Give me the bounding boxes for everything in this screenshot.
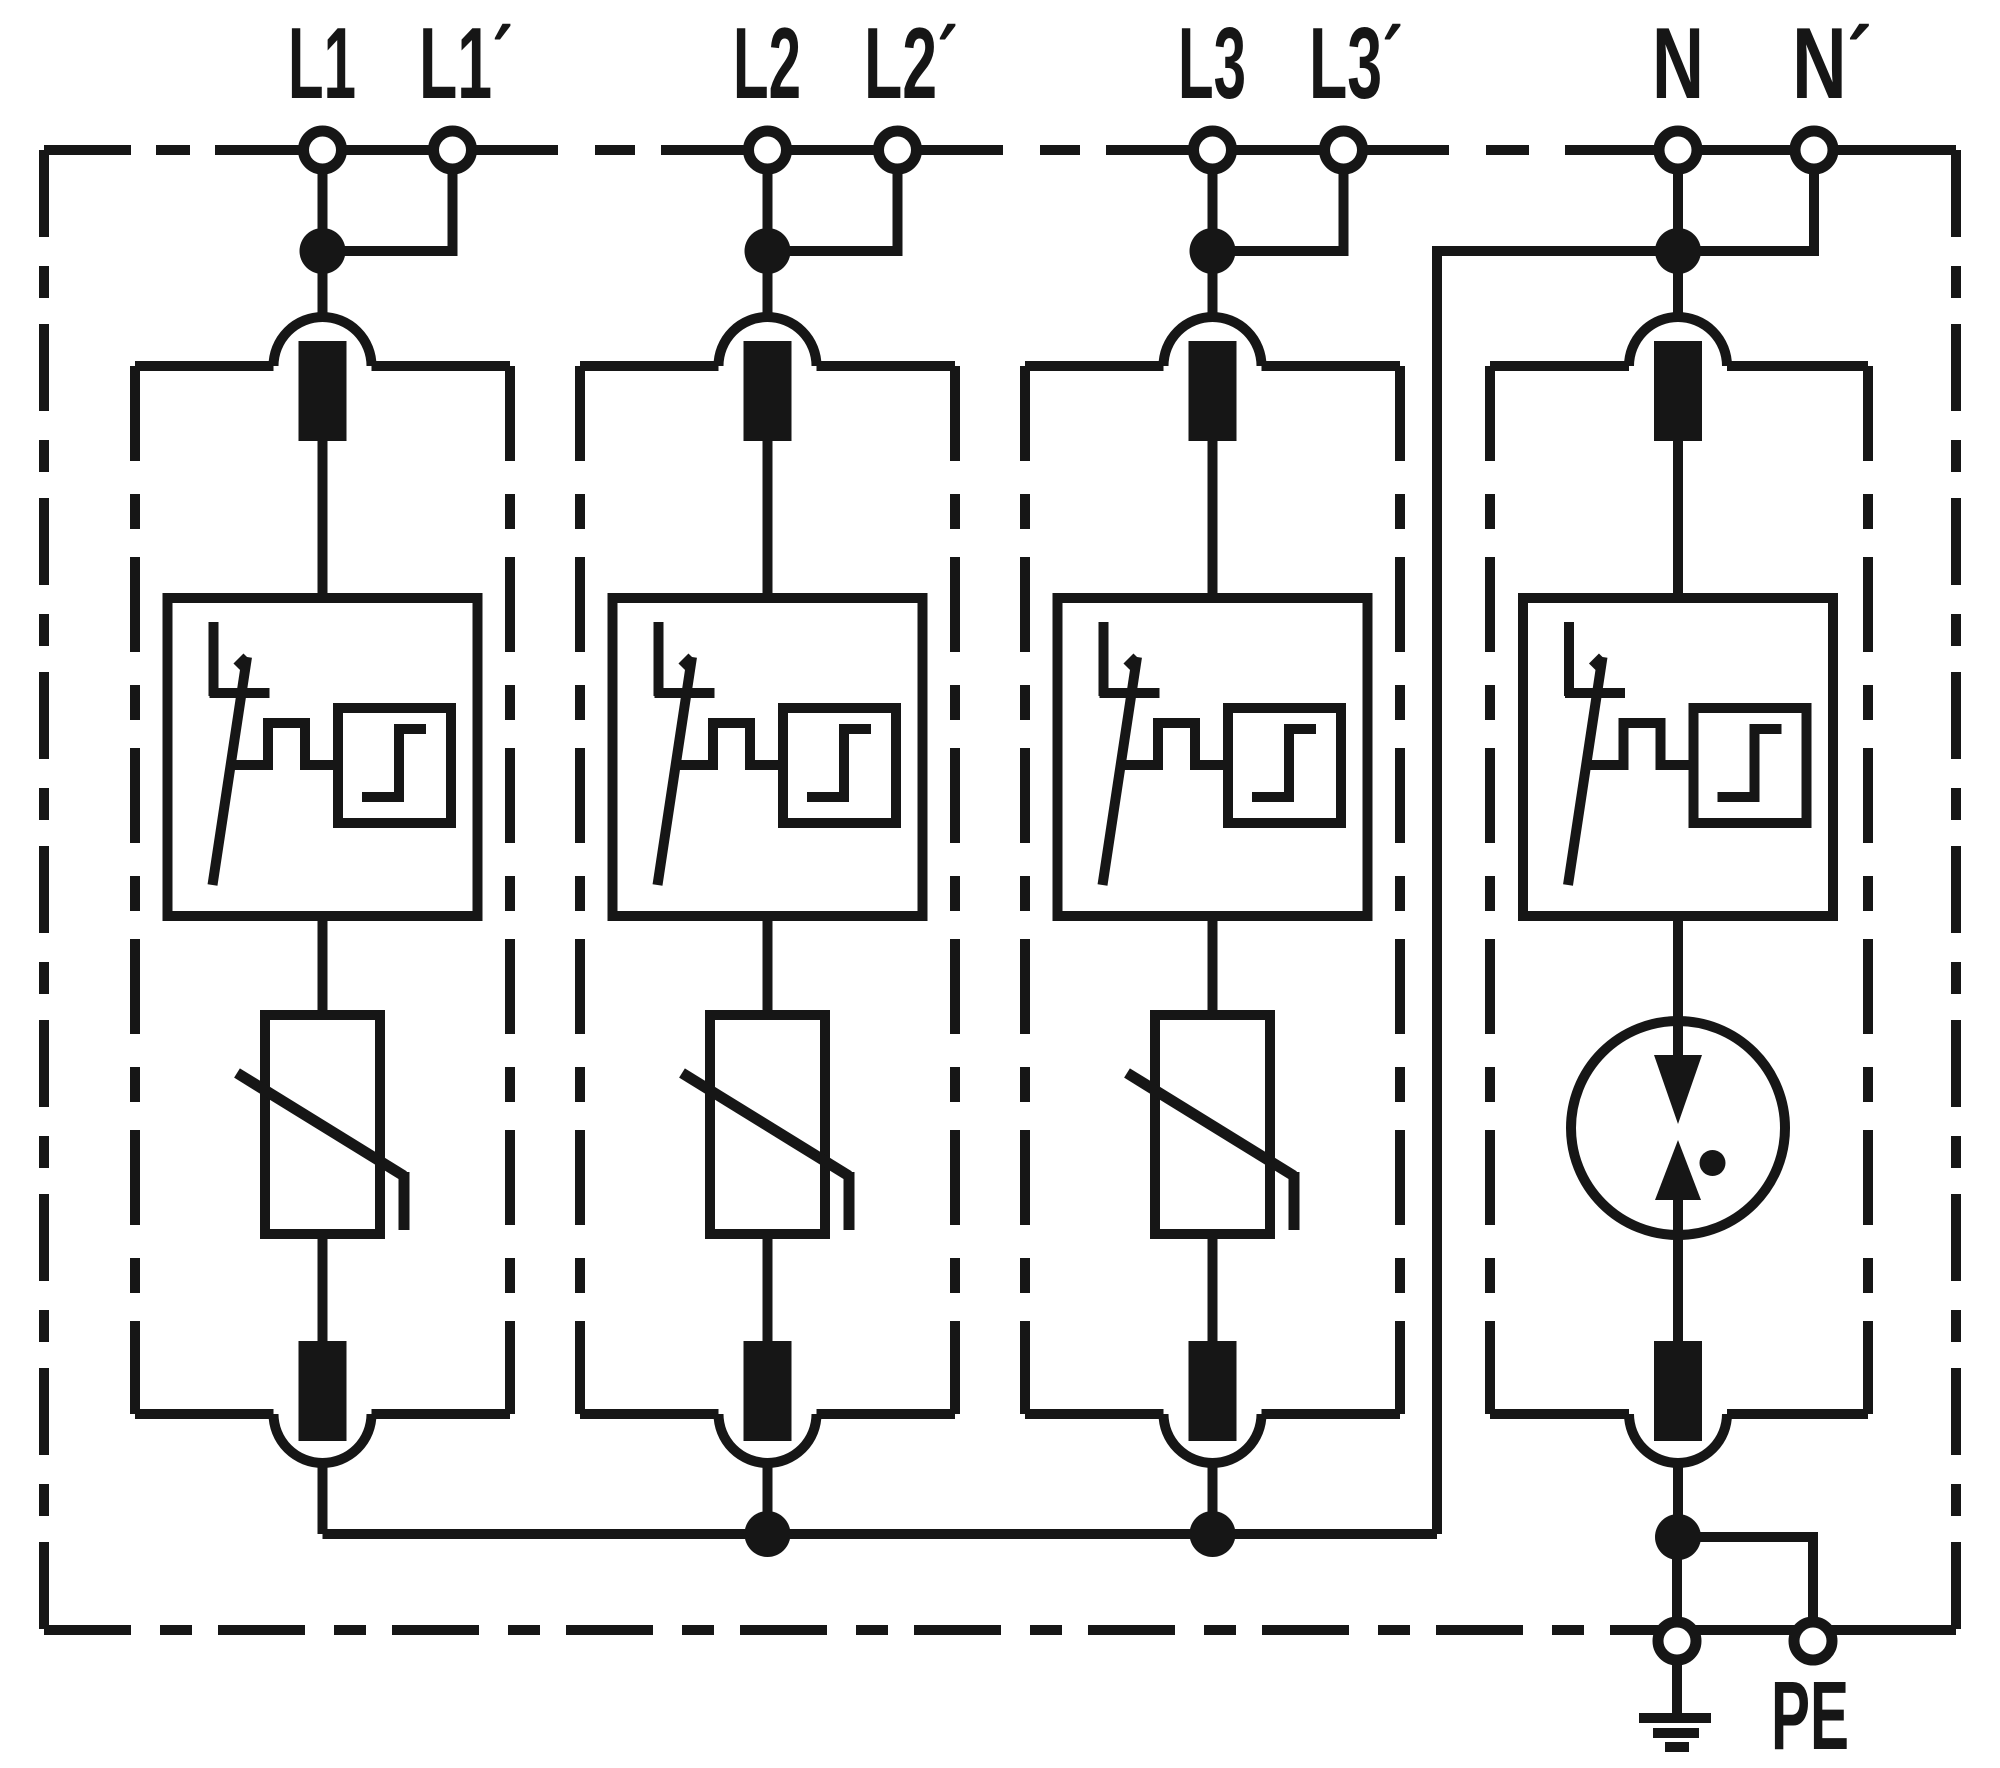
wire L3 disconnector to arrester element xyxy=(1208,916,1218,1015)
wire L2 junction to module contact xyxy=(763,251,773,321)
wire N gdt to bottom contact xyxy=(1673,1200,1683,1342)
gas discharge tube N xyxy=(1571,1021,1785,1235)
wire L2 terminal pair connector xyxy=(768,145,898,155)
enclosure border bottom edge xyxy=(44,1625,1956,1635)
wire L1 disconnector to arrester element xyxy=(318,916,328,1015)
svg-text:L1´: L1´ xyxy=(419,8,513,120)
wire L2 varistor to bottom contact xyxy=(763,1234,773,1342)
terminal circle N xyxy=(1659,131,1697,169)
wire L2-prime branch xyxy=(768,150,898,251)
plug-in contact top L2 (arc + blade) xyxy=(719,317,817,366)
thermal disconnector box L1 xyxy=(168,598,478,916)
module box L1 (dash-dot) xyxy=(130,366,140,1414)
junction node L2 xyxy=(745,228,791,274)
svg-text:L3´: L3´ xyxy=(1309,8,1403,120)
plug-in contact top L3 (arc + blade) xyxy=(1164,317,1262,366)
wire L3 terminal pair connector xyxy=(1213,145,1344,155)
terminal circle L2-prime xyxy=(879,131,917,169)
disconnector signal step line N xyxy=(1586,723,1694,765)
thermal disconnector box N xyxy=(1523,598,1833,916)
plug-in contact top L1 (arc + blade) xyxy=(274,317,372,366)
svg-text:PE: PE xyxy=(1771,1661,1849,1768)
terminal circle ground xyxy=(1658,1622,1696,1660)
disconnector signal step line L2 xyxy=(675,723,783,765)
junction node bus-L3 xyxy=(1190,1511,1236,1557)
svg-text:N´: N´ xyxy=(1792,8,1872,120)
signal contact box L3 xyxy=(1228,708,1341,823)
wire L1 contact to disconnector xyxy=(318,441,328,598)
plug-in contact top N (arc + blade) xyxy=(1629,317,1727,366)
terminal circle L3 xyxy=(1194,131,1232,169)
signal contact box N xyxy=(1694,708,1807,823)
terminal circle L3-prime xyxy=(1325,131,1363,169)
enclosure border left edge xyxy=(39,150,49,1630)
module box N (dash-dot) xyxy=(1485,366,1495,1414)
module box L3 (dash-dot) xyxy=(1020,366,1030,1414)
junction node L1 xyxy=(300,228,346,274)
bus wire L1-L2-L3 common xyxy=(323,1529,1438,1539)
terminal circle L1-prime xyxy=(434,131,472,169)
varistor L1 xyxy=(265,1015,380,1234)
junction node N xyxy=(1655,228,1701,274)
enclosure border right edge xyxy=(1951,150,1961,1630)
wire L3 bottom contact to bus xyxy=(1208,1459,1218,1534)
wire N terminal pair connector xyxy=(1678,145,1814,155)
module box L2 (dash-dot) xyxy=(575,366,585,1414)
svg-text:L2´: L2´ xyxy=(864,8,958,120)
varistor L2 xyxy=(710,1015,825,1234)
junction node L3 xyxy=(1190,228,1236,274)
varistor L3 xyxy=(1155,1015,1270,1234)
terminal circle N-prime xyxy=(1795,131,1833,169)
wire L3 junction to module contact xyxy=(1208,251,1218,321)
disconnector switch blade L1 xyxy=(209,622,219,696)
wire N junction to module contact xyxy=(1673,251,1683,321)
wire L1 bottom contact to bus xyxy=(318,1459,328,1534)
plug-in contact bottom L1 xyxy=(299,1341,347,1441)
wire L3-prime branch xyxy=(1213,150,1344,251)
wire N down to junction xyxy=(1673,150,1683,251)
wire N junction to ground terminal xyxy=(1672,1537,1682,1622)
plug-in contact bottom L3 xyxy=(1189,1341,1237,1441)
wire L1 terminal pair connector xyxy=(323,145,453,155)
thermal disconnector box L2 xyxy=(613,598,923,916)
wire L2 disconnector to arrester element xyxy=(763,916,773,1015)
terminal circle L2 xyxy=(749,131,787,169)
enclosure border top edge (dash-dot segments) xyxy=(44,145,131,155)
plug-in contact bottom L2 xyxy=(744,1341,792,1441)
ground symbol xyxy=(1672,1664,1682,1718)
terminal circle PE-prime xyxy=(1794,1622,1832,1660)
svg-text:L1: L1 xyxy=(288,8,356,120)
wire N contact to disconnector xyxy=(1673,441,1683,598)
wire L2 down to junction xyxy=(763,150,773,251)
wire L3 down to junction xyxy=(1208,150,1218,251)
signal contact box L1 xyxy=(338,708,451,823)
disconnector switch blade N xyxy=(1564,622,1574,696)
wire N-prime branch xyxy=(1678,150,1814,251)
junction node bus-L2 xyxy=(745,1511,791,1557)
wire bottom: N terminal to PE terminal to corner xyxy=(1677,1625,1956,1635)
svg-text:L2: L2 xyxy=(733,8,801,120)
terminal circle L1 xyxy=(304,131,342,169)
svg-text:N: N xyxy=(1652,8,1704,120)
disconnector signal step line L3 xyxy=(1120,723,1228,765)
wire N-prime to top-right corner xyxy=(1814,145,1956,155)
wire L1 junction to module contact xyxy=(318,251,328,321)
junction node N bottom xyxy=(1655,1514,1701,1560)
wire L1-prime branch xyxy=(323,150,453,251)
wire L1 varistor to bottom contact xyxy=(318,1234,328,1342)
plug-in contact bottom N xyxy=(1654,1341,1702,1441)
wire N junction to PE-prime terminal xyxy=(1678,1537,1813,1622)
thermal disconnector box L3 xyxy=(1058,598,1368,916)
wire L2 bottom contact to bus xyxy=(763,1459,773,1534)
riser wire bus to N junction xyxy=(1437,251,1678,1534)
disconnector switch blade L3 xyxy=(1099,622,1109,696)
wire N disconnector to arrester element xyxy=(1673,916,1683,1055)
wire L3 contact to disconnector xyxy=(1208,441,1218,598)
svg-text:L3: L3 xyxy=(1178,8,1246,120)
disconnector signal step line L1 xyxy=(230,723,338,765)
wire L3 varistor to bottom contact xyxy=(1208,1234,1218,1342)
disconnector switch blade L2 xyxy=(654,622,664,696)
wire L2 contact to disconnector xyxy=(763,441,773,598)
wire N bottom contact to junction xyxy=(1673,1459,1683,1537)
signal contact box L2 xyxy=(783,708,896,823)
wire L1 down to junction xyxy=(318,150,328,251)
